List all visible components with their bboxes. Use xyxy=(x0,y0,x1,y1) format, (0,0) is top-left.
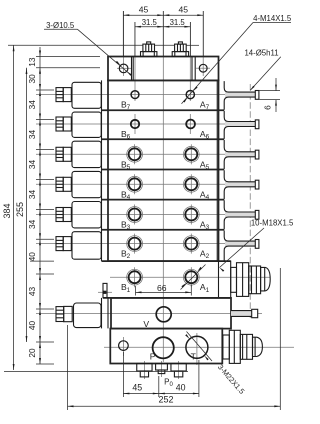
plate divider left xyxy=(132,57,134,81)
dimension 45/40 P0 xyxy=(123,352,198,397)
side fitting P0 (M22) xyxy=(223,330,263,363)
port B7 xyxy=(131,91,139,99)
svg-text:34: 34 xyxy=(27,190,37,200)
label B3 xyxy=(121,220,131,232)
label A4 xyxy=(200,189,210,201)
plate hole right xyxy=(199,64,207,72)
dimension 255 xyxy=(15,68,27,342)
callout 10-M18X1.5 xyxy=(220,219,294,272)
svg-text:255: 255 xyxy=(15,202,25,217)
dimension 66 xyxy=(136,283,192,296)
svg-text:66: 66 xyxy=(157,283,167,293)
svg-text:40: 40 xyxy=(27,252,37,262)
callout 4-M14X1.5 xyxy=(182,14,292,104)
callout arrows A1 xyxy=(181,265,206,290)
B1 right block xyxy=(219,261,231,298)
port B3 xyxy=(127,207,143,223)
svg-text:34: 34 xyxy=(27,219,37,229)
svg-text:4-M14X1.5: 4-M14X1.5 xyxy=(253,14,292,23)
svg-text:40: 40 xyxy=(27,321,37,331)
dimension 45/45 and 31.5/31.5 xyxy=(123,4,203,56)
label A7 xyxy=(200,100,210,112)
V section block xyxy=(111,298,231,329)
svg-text:45: 45 xyxy=(139,4,149,14)
V section left flange lines xyxy=(102,298,109,329)
svg-text:34: 34 xyxy=(27,100,37,110)
bottom relief cap xyxy=(56,303,101,328)
lever rod 2 xyxy=(224,231,259,261)
cap section B4 xyxy=(56,171,101,197)
port A5 xyxy=(183,146,199,162)
lever rod 5 xyxy=(224,140,259,169)
callout 14-O5h11 xyxy=(244,48,280,90)
svg-text:31.5: 31.5 xyxy=(170,18,186,27)
cap section B2 xyxy=(56,232,101,260)
label B5 xyxy=(121,159,131,171)
port B2 xyxy=(127,236,143,252)
B1 left stub xyxy=(103,283,107,297)
cap section B6 xyxy=(56,112,101,137)
svg-text:384: 384 xyxy=(2,203,12,218)
svg-text:13: 13 xyxy=(27,57,37,67)
port A2 xyxy=(183,236,199,252)
label P xyxy=(150,352,156,362)
label B6 xyxy=(121,129,131,141)
right inner edge line xyxy=(216,80,218,261)
label A1 xyxy=(200,282,210,294)
label A6 xyxy=(200,129,210,141)
dimension 252 xyxy=(68,268,281,410)
svg-text:34: 34 xyxy=(27,130,37,140)
label A2 xyxy=(200,249,210,261)
bottom plug left xyxy=(137,364,152,377)
bottom inlet plate xyxy=(110,329,222,364)
bottom plug P0 xyxy=(156,364,168,374)
left chain dimensions xyxy=(27,47,100,364)
svg-text:40: 40 xyxy=(176,383,186,393)
aux circle xyxy=(119,341,129,351)
label V xyxy=(143,319,149,329)
P port circle xyxy=(153,337,174,358)
label B4 xyxy=(121,189,131,201)
port B4 xyxy=(127,176,143,192)
port A7 xyxy=(186,91,194,99)
port A3 xyxy=(183,207,199,223)
port B1 xyxy=(127,269,143,285)
bottom plug right xyxy=(171,364,186,377)
label B2 xyxy=(121,249,131,261)
svg-text:43: 43 xyxy=(27,287,37,297)
lever rod 6 xyxy=(224,111,259,139)
extension stub 261 xyxy=(30,260,54,262)
port B6 xyxy=(131,120,139,128)
valve body outline xyxy=(108,80,219,261)
svg-text:V: V xyxy=(143,319,149,329)
callout 3-O10.5 xyxy=(44,21,132,76)
left flange line xyxy=(101,80,103,261)
cap section B7 xyxy=(56,82,101,108)
B1/V boundary xyxy=(103,297,231,299)
svg-text:14-Ø5h11: 14-Ø5h11 xyxy=(244,48,278,57)
dimension 384 xyxy=(2,45,199,371)
plate hole left xyxy=(119,64,128,73)
port B5 xyxy=(127,146,143,162)
top bolt 2 xyxy=(172,42,188,57)
port A1 xyxy=(183,269,199,285)
port A4 xyxy=(183,176,199,192)
port A6 xyxy=(186,120,195,129)
top cover plate xyxy=(108,57,219,81)
svg-text:30: 30 xyxy=(27,74,37,84)
svg-text:31.5: 31.5 xyxy=(142,18,158,27)
svg-text:45: 45 xyxy=(132,383,142,393)
cap section B3 xyxy=(56,202,101,228)
cap section B5 xyxy=(56,141,101,167)
svg-text:P: P xyxy=(150,352,156,362)
svg-text:T: T xyxy=(191,352,197,362)
lever rod 7 xyxy=(224,81,259,110)
V port circle xyxy=(156,307,171,322)
label A5 xyxy=(200,159,210,171)
section boundaries xyxy=(102,110,231,261)
svg-text:252: 252 xyxy=(158,394,173,404)
plate divider right xyxy=(192,57,195,81)
label B7 xyxy=(121,100,131,112)
svg-text:20: 20 xyxy=(27,348,37,358)
lever rod 4 xyxy=(224,170,259,199)
T port circle xyxy=(186,336,208,358)
label A3 xyxy=(200,220,210,232)
svg-text:6: 6 xyxy=(263,105,273,110)
V lever rod xyxy=(231,309,258,317)
callout 3-M22X1.5 xyxy=(185,332,246,396)
lever rod 3 xyxy=(224,200,259,229)
svg-text:3-Ø10.5: 3-Ø10.5 xyxy=(46,21,75,30)
centerlines xyxy=(36,11,294,379)
label B1 xyxy=(121,282,131,294)
dimension 6 xyxy=(260,78,281,112)
svg-text:45: 45 xyxy=(179,4,189,14)
svg-text:34: 34 xyxy=(27,160,37,170)
label T xyxy=(191,352,197,362)
top bolt 1 xyxy=(141,42,157,57)
side fitting A1 (M18) xyxy=(231,263,271,297)
svg-text:10-M18X1.5: 10-M18X1.5 xyxy=(251,219,294,228)
